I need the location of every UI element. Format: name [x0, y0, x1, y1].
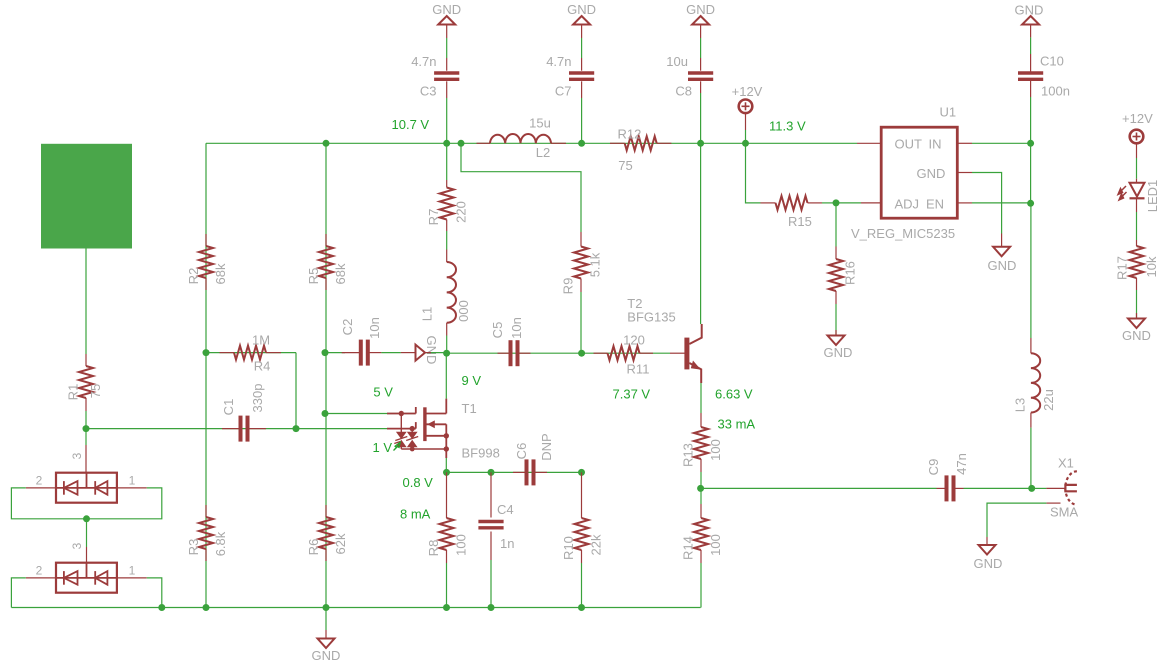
svg-text:10n: 10n: [367, 317, 382, 339]
resistor R11: [594, 352, 608, 354]
svg-text:L3: L3: [1013, 398, 1028, 412]
svg-text:3: 3: [70, 452, 84, 459]
svg-text:R10: R10: [561, 536, 576, 560]
ground (C8): [692, 16, 709, 25]
svg-text:R9: R9: [561, 278, 576, 295]
wire: [11, 607, 700, 609]
protection diodes of T1: [394, 414, 446, 450]
wire: [445, 458, 447, 472]
svg-text:10n: 10n: [509, 317, 524, 339]
pin EN of U1: [957, 202, 972, 204]
capacitor C6 (DNP): [513, 471, 525, 473]
svg-text:C4: C4: [497, 502, 514, 517]
wire: [964, 487, 1032, 489]
svg-text:7.37 V: 7.37 V: [613, 387, 651, 402]
node junction R2/R4: [203, 349, 210, 356]
svg-text:R12: R12: [618, 127, 642, 142]
pin 2 of D1: [26, 487, 56, 489]
svg-text:15u: 15u: [529, 116, 551, 131]
capacitor C8: [700, 93, 702, 143]
ground (X1 shield): [979, 545, 996, 555]
node junction R10/C6: [578, 469, 585, 476]
wire: [325, 413, 416, 415]
svg-text:C8: C8: [675, 84, 692, 99]
resistor R4: [206, 352, 296, 354]
svg-text:10u: 10u: [666, 54, 688, 69]
svg-text:L1: L1: [420, 307, 435, 321]
capacitor C5: [498, 352, 511, 354]
pin IN of U1: [957, 142, 972, 144]
svg-text:GND: GND: [424, 336, 439, 365]
resistor R17: [1130, 246, 1144, 278]
transistor T1 BF998: [387, 399, 446, 458]
node junction: [203, 604, 210, 611]
wire: [836, 202, 861, 204]
LED LED1: [1130, 183, 1145, 197]
svg-text:10.7 V: 10.7 V: [392, 117, 430, 132]
svg-text:1 V: 1 V: [373, 440, 393, 455]
inductor L2: [477, 142, 491, 144]
wire: [11, 488, 161, 519]
pin GND of U1: [957, 172, 972, 174]
svg-text:GND: GND: [686, 2, 715, 17]
svg-text:V_REG_MIC5235: V_REG_MIC5235: [851, 226, 955, 241]
svg-text:GND: GND: [917, 166, 946, 181]
node junction R13/R14/C9: [697, 485, 704, 492]
svg-text:GND: GND: [1122, 328, 1151, 343]
svg-text:R13: R13: [681, 443, 696, 467]
node junction: [578, 604, 585, 611]
svg-text:DNP: DNP: [539, 433, 554, 460]
svg-text:1n: 1n: [500, 536, 514, 551]
wire: [1030, 143, 1032, 204]
ground (U1): [993, 247, 1010, 256]
ground (C10): [1022, 16, 1039, 25]
capacitor C4: [490, 472, 492, 517]
ground (C2): [416, 345, 426, 361]
svg-text:T1: T1: [462, 401, 477, 416]
resistor R12: [610, 142, 625, 144]
svg-text:+12V: +12V: [1122, 111, 1153, 126]
svg-text:9 V: 9 V: [462, 373, 482, 388]
inductor L3: [1030, 428, 1032, 489]
ground (C3): [438, 16, 455, 25]
svg-text:BF998: BF998: [462, 446, 500, 461]
svg-text:120: 120: [623, 333, 645, 348]
photodiode block PD1 (green filled rectangle): [41, 144, 132, 249]
svg-text:11.3 V: 11.3 V: [769, 119, 806, 134]
svg-text:GND: GND: [1015, 3, 1044, 18]
pin 1 of D1: [117, 487, 147, 489]
svg-text:68k: 68k: [333, 263, 348, 284]
wire: [582, 352, 670, 354]
node junction rail/R5: [323, 140, 330, 147]
svg-text:6.8k: 6.8k: [213, 531, 228, 556]
wire: [206, 142, 857, 144]
node junction R1/C1: [83, 425, 90, 432]
svg-text:GND: GND: [312, 648, 341, 662]
svg-text:BFG135: BFG135: [627, 310, 675, 325]
svg-text:62k: 62k: [333, 533, 348, 554]
svg-text:1: 1: [129, 564, 136, 578]
svg-text:R15: R15: [788, 214, 812, 229]
resistor R16: [835, 203, 837, 247]
wire: [446, 231, 448, 250]
capacitor C7: [581, 98, 583, 143]
wire: [447, 352, 582, 354]
pin 2 of D2: [26, 577, 56, 579]
svg-text:R1: R1: [66, 384, 81, 401]
svg-text:R6: R6: [306, 539, 321, 556]
svg-text:5 V: 5 V: [373, 385, 393, 400]
resistor R14: [700, 488, 702, 504]
svg-text:EN: EN: [926, 197, 944, 212]
svg-text:C10: C10: [1040, 54, 1064, 69]
wire: [670, 352, 685, 354]
node junction C4 top: [488, 469, 495, 476]
node junction C5/R9/R11: [578, 350, 585, 357]
pin 1 of D2: [117, 577, 147, 579]
wire: [325, 608, 327, 631]
wire: [1032, 487, 1047, 489]
svg-text:6.63 V: 6.63 V: [715, 387, 753, 402]
svg-text:R4: R4: [254, 359, 271, 374]
svg-text:LED1: LED1: [1145, 180, 1160, 213]
node junction L1/C5/T1-drain: [443, 350, 450, 357]
wire: [85, 429, 87, 445]
wire: [425, 352, 447, 354]
resistor R9: [580, 232, 582, 247]
svg-text:R3: R3: [186, 539, 201, 556]
node junction U1 EN: [1027, 200, 1034, 207]
svg-text:GND: GND: [567, 2, 596, 17]
svg-text:33 mA: 33 mA: [718, 417, 756, 432]
svg-text:L2: L2: [536, 145, 550, 160]
svg-text:IN: IN: [929, 137, 942, 152]
node junction T1 source/R8: [443, 469, 450, 476]
node junction R5/C2: [322, 349, 329, 356]
svg-text:1M: 1M: [252, 333, 270, 348]
wire: [822, 202, 836, 204]
svg-text:+12V: +12V: [732, 84, 763, 99]
dual diode D2 (package): [56, 563, 117, 593]
svg-text:C7: C7: [555, 84, 572, 99]
node junction 5V tap: [322, 410, 329, 417]
svg-text:R2: R2: [186, 268, 201, 285]
node junction R4/C1 net: [293, 425, 300, 432]
svg-text:100n: 100n: [1041, 84, 1070, 99]
pin OUT of U1: [857, 142, 881, 144]
node junction: [443, 604, 450, 611]
svg-text:2: 2: [36, 474, 43, 488]
wire: [1046, 502, 1060, 504]
svg-text:X1: X1: [1058, 456, 1074, 471]
wire: [461, 143, 581, 232]
svg-text:SMA: SMA: [1050, 505, 1079, 520]
node junction R15/R16/ADJ: [833, 199, 840, 206]
svg-text:C2: C2: [340, 319, 355, 336]
wire: [446, 336, 448, 354]
resistor R6: [325, 505, 327, 517]
node junction: [488, 604, 495, 611]
node junction rail/C3: [443, 140, 450, 147]
node junction C9/L3/X1: [1028, 485, 1035, 492]
capacitor C2: [325, 352, 345, 354]
svg-text:GND: GND: [824, 345, 853, 360]
svg-text:100: 100: [708, 439, 723, 461]
wire: [1136, 198, 1138, 212]
svg-text:3: 3: [70, 542, 84, 549]
svg-text:R11: R11: [627, 362, 650, 377]
svg-text:100: 100: [454, 534, 469, 556]
wire: [325, 143, 327, 607]
capacitor C1: [222, 428, 241, 430]
svg-text:2: 2: [36, 564, 43, 578]
resistor R8: [446, 472, 448, 518]
node junction: [158, 604, 165, 611]
wire: [86, 428, 416, 430]
wire: [745, 113, 747, 130]
svg-text:R16: R16: [843, 261, 858, 285]
svg-text:R8: R8: [426, 540, 441, 557]
svg-text:GND: GND: [432, 2, 461, 17]
resistor R10: [581, 472, 583, 518]
svg-text:R7: R7: [426, 209, 441, 226]
svg-text:C5: C5: [490, 322, 505, 339]
svg-text:ADJ: ADJ: [895, 197, 920, 212]
svg-text:22k: 22k: [589, 534, 604, 555]
svg-text:5.1k: 5.1k: [588, 252, 603, 277]
wire: [85, 249, 87, 355]
svg-text:C6: C6: [514, 443, 529, 460]
capacitor C10: [1030, 97, 1032, 143]
svg-text:GND: GND: [988, 258, 1017, 273]
svg-text:4.7n: 4.7n: [411, 54, 436, 69]
inductor L1: [446, 250, 448, 263]
svg-text:4.7n: 4.7n: [546, 54, 571, 69]
node junction rail/R9 feed: [458, 140, 465, 147]
svg-text:GND: GND: [974, 556, 1003, 571]
svg-text:75: 75: [618, 158, 632, 173]
svg-text:220: 220: [454, 201, 469, 223]
voltage regulator U1 V_REG_MIC5235: [881, 127, 957, 218]
svg-text:10k: 10k: [1144, 256, 1159, 277]
wire: [445, 353, 447, 398]
capacitor C9: [937, 487, 946, 489]
wire: [86, 519, 88, 547]
probe mark: [394, 442, 401, 450]
svg-text:C3: C3: [420, 84, 437, 99]
wire: [701, 487, 937, 489]
resistor R5: [325, 234, 327, 246]
resistor R15: [761, 202, 776, 204]
resistor R3: [205, 505, 207, 517]
wire: [205, 143, 207, 607]
supply +12V (right): [1130, 130, 1144, 144]
wire: [11, 578, 25, 608]
svg-text:100: 100: [708, 534, 723, 556]
resistor R1: [79, 366, 93, 398]
svg-text:1: 1: [129, 474, 136, 488]
svg-text:330p: 330p: [250, 384, 265, 413]
resistor R2: [205, 234, 207, 246]
node junction rail/T2 collector: [697, 140, 704, 147]
node junction between D1 and D2: [83, 515, 90, 522]
capacitor C3: [446, 98, 448, 143]
wire: [700, 143, 702, 324]
ground (R16): [835, 330, 837, 336]
svg-text:U1: U1: [940, 105, 957, 120]
wire: [85, 411, 87, 429]
ground (bottom): [318, 639, 335, 649]
transistor T2 BFG135: [684, 338, 689, 370]
wire: [1136, 143, 1138, 158]
svg-text:000: 000: [456, 300, 471, 322]
resistor R7: [446, 143, 448, 180]
node junction U1 IN: [1027, 140, 1034, 147]
dual diode D1 (package): [56, 473, 117, 503]
node junction rail/C7: [578, 140, 585, 147]
svg-text:8 mA: 8 mA: [400, 507, 431, 522]
svg-text:C1: C1: [221, 399, 236, 416]
supply +12V (left): [739, 100, 753, 114]
ground (C7): [573, 16, 590, 25]
svg-text:47n: 47n: [954, 453, 969, 475]
connector X1 SMA: [1065, 471, 1077, 504]
node junction: [323, 604, 330, 611]
svg-text:75: 75: [88, 384, 103, 398]
wire: [295, 353, 297, 429]
wire: [746, 143, 761, 203]
svg-text:22u: 22u: [1041, 389, 1056, 411]
wire: [447, 471, 582, 473]
svg-text:R5: R5: [306, 268, 321, 285]
svg-text:R17: R17: [1115, 256, 1130, 280]
svg-text:68k: 68k: [213, 263, 228, 284]
ground (R17): [1136, 313, 1138, 319]
resistor R13: [694, 427, 708, 459]
svg-text:C9: C9: [926, 459, 941, 476]
wire: [700, 383, 702, 413]
svg-text:OUT: OUT: [895, 137, 923, 152]
svg-text:0.8 V: 0.8 V: [403, 475, 434, 490]
node junction rail/+12V: [742, 140, 749, 147]
svg-text:R14: R14: [681, 536, 696, 560]
